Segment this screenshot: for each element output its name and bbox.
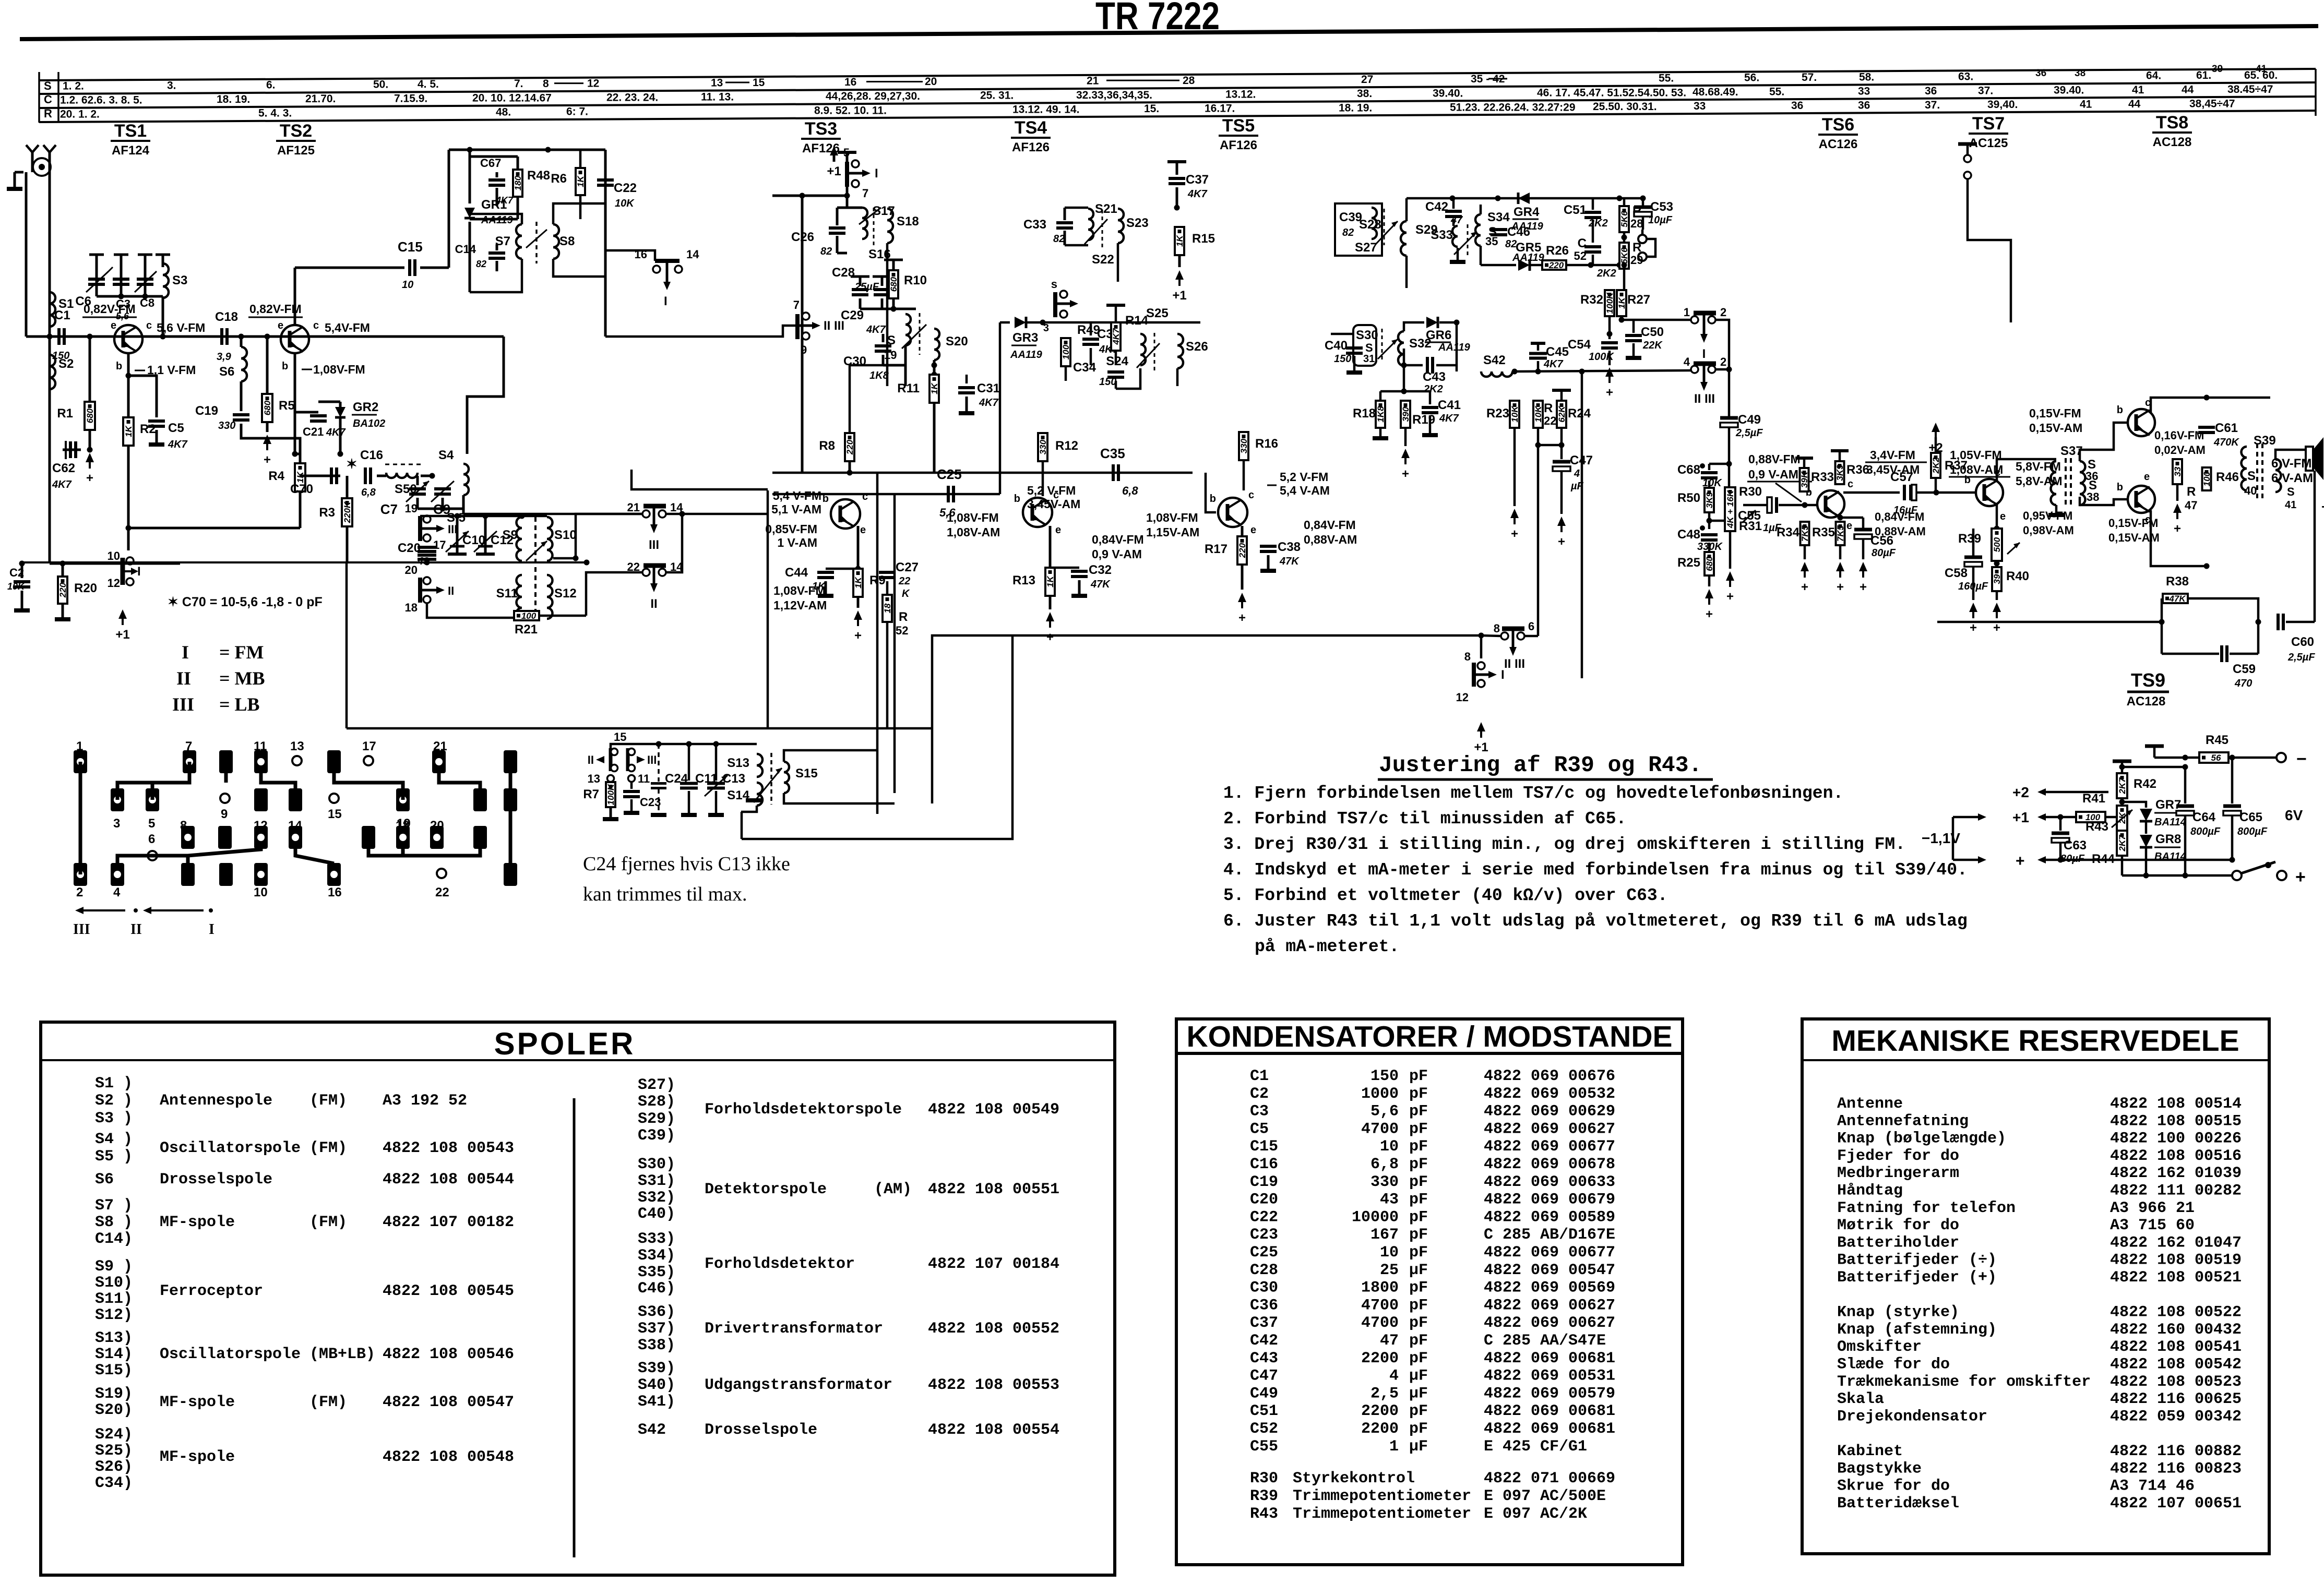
- svg-text:c: c: [1248, 489, 1254, 501]
- svg-text:R1: R1: [57, 406, 73, 421]
- wire switch joins down: [1716, 320, 1729, 416]
- svg-text:S9 ): S9 ): [95, 1258, 133, 1276]
- svg-text:63.: 63.: [1958, 70, 1973, 82]
- pcb pad 19: [396, 788, 410, 811]
- svg-text:C29: C29: [841, 308, 864, 322]
- svg-text:1,08V-AM: 1,08V-AM: [947, 525, 1000, 539]
- coil S42: [1481, 371, 1512, 377]
- svg-text:2: 2: [1720, 355, 1726, 368]
- svg-text:21: 21: [627, 501, 640, 514]
- switch 20 18 II: [418, 578, 422, 603]
- wire jack down: [25, 172, 28, 337]
- wire 8 contact to frame: [1481, 635, 1501, 636]
- svg-text:43: 43: [1380, 1191, 1399, 1209]
- svg-text:20. 10. 12.14.67: 20. 10. 12.14.67: [472, 92, 552, 104]
- pcb hole 9: [220, 794, 230, 803]
- svg-text:470: 470: [2234, 678, 2252, 689]
- svg-text:C41: C41: [1438, 398, 1461, 412]
- capacitor C41 4K7: [1404, 390, 1430, 393]
- svg-text:18: 18: [396, 819, 410, 833]
- svg-text:12: 12: [587, 77, 599, 89]
- svg-text:S33): S33): [638, 1230, 675, 1248]
- svg-text:4K7: 4K7: [979, 397, 999, 409]
- svg-text:TS6: TS6: [1822, 115, 1854, 135]
- svg-text:R30: R30: [1250, 1470, 1278, 1487]
- svg-text:Medbringerarm: Medbringerarm: [1837, 1165, 1959, 1182]
- coil S3: [163, 263, 169, 298]
- svg-text:+: +: [1558, 535, 1565, 549]
- svg-text:2. Forbind TS7/c til minusside: 2. Forbind TS7/c til minussiden af C65.: [1223, 809, 1626, 829]
- svg-text:e: e: [2000, 511, 2006, 522]
- svg-text:47: 47: [1450, 214, 1463, 226]
- svg-text:S39): S39): [638, 1360, 675, 1377]
- svg-text:R20: R20: [74, 581, 97, 595]
- svg-text:S2 ): S2 ): [95, 1092, 133, 1110]
- resistor R11 1K: [932, 372, 937, 378]
- svg-text:10K: 10K: [615, 198, 635, 209]
- pcb trace group top: [117, 762, 189, 800]
- wire R50 node to pot: [1709, 520, 1725, 522]
- svg-text:1 V-AM: 1 V-AM: [777, 536, 817, 549]
- pcb pad right c: [504, 863, 517, 886]
- svg-text:+1: +1: [115, 628, 129, 642]
- svg-text:55.: 55.: [1769, 86, 1784, 98]
- svg-text:0,85V-FM: 0,85V-FM: [765, 522, 817, 536]
- svg-text:390: 390: [1401, 406, 1411, 422]
- diode GR5 AA119: [1518, 259, 1530, 271]
- svg-text:20: 20: [430, 819, 444, 833]
- svg-text:C: C: [1578, 236, 1587, 250]
- svg-text:4822 069 00547: 4822 069 00547: [1484, 1262, 1615, 1279]
- resistor R42 2K7: [2117, 773, 2127, 798]
- coil S7: [516, 224, 522, 259]
- svg-text:4822 108 00547: 4822 108 00547: [383, 1394, 514, 1411]
- svg-text:82: 82: [1342, 227, 1354, 238]
- resistor R3 220K: [346, 476, 349, 498]
- plus +2 feed: [1935, 429, 1937, 438]
- coil S24 S25: [1140, 334, 1146, 365]
- resistor R5 680: [265, 334, 270, 340]
- svg-text:4K7: 4K7: [326, 427, 346, 438]
- svg-text:8: 8: [1494, 622, 1500, 635]
- svg-text:44: 44: [2128, 98, 2141, 110]
- svg-text:C20: C20: [398, 541, 421, 555]
- transistor TS7 body: [1976, 479, 2003, 506]
- svg-text:38: 38: [2075, 68, 2085, 79]
- svg-text:Trimmepotentiometer: Trimmepotentiometer: [1293, 1505, 1471, 1523]
- capacitor C65 800uF: [2231, 758, 2234, 803]
- svg-text:R14: R14: [1125, 314, 1149, 328]
- svg-text:R41: R41: [2082, 791, 2105, 806]
- svg-text:S23: S23: [1126, 216, 1149, 230]
- svg-text:C26: C26: [791, 230, 814, 244]
- AGC rail: [772, 472, 1193, 474]
- svg-text:C36: C36: [1250, 1297, 1278, 1314]
- svg-text:47: 47: [2185, 499, 2197, 512]
- svg-text:4822 108 00545: 4822 108 00545: [383, 1282, 514, 1300]
- S7 S8 frame wires: [470, 214, 522, 224]
- svg-text:Batterifjeder (÷): Batterifjeder (÷): [1837, 1252, 1997, 1269]
- pcb pad 8: [181, 826, 195, 849]
- resistor R17 220: [1241, 526, 1244, 536]
- svg-text:S: S: [44, 79, 52, 92]
- svg-text:C65: C65: [2239, 810, 2262, 824]
- svg-text:C34): C34): [95, 1474, 133, 1492]
- svg-text:4822 069 00532: 4822 069 00532: [1484, 1085, 1615, 1103]
- svg-text:b: b: [823, 493, 829, 505]
- svg-text:AC128: AC128: [2127, 694, 2166, 709]
- svg-text:S1 ): S1 ): [95, 1075, 133, 1093]
- wire top feed: [449, 149, 605, 151]
- pcb pad 20: [430, 826, 444, 849]
- svg-text:13: 13: [588, 772, 600, 785]
- svg-text:GR3: GR3: [1012, 331, 1038, 345]
- svg-text:C19: C19: [195, 404, 218, 418]
- svg-text:AF126: AF126: [1220, 138, 1257, 152]
- pcb pad filled g: [362, 826, 375, 849]
- svg-text:33: 33: [2173, 466, 2183, 476]
- capacitor C67 4K7: [470, 172, 497, 173]
- svg-text:S19): S19): [95, 1385, 133, 1403]
- capacitor C2 10K: [22, 563, 50, 564]
- frame vertical to S15: [931, 728, 934, 803]
- svg-text:5,2 V-FM: 5,2 V-FM: [1280, 470, 1328, 484]
- svg-text:C68: C68: [1677, 463, 1700, 477]
- resistor R20: [62, 563, 64, 577]
- svg-text:7K5: 7K5: [1836, 525, 1845, 542]
- svg-text:6: 7.: 6: 7.: [566, 106, 588, 118]
- svg-text:S28): S28): [638, 1093, 675, 1111]
- capacitor C45 4K7: [1531, 342, 1545, 345]
- coil S8: [553, 224, 559, 259]
- svg-text:4822 069 00629: 4822 069 00629: [1484, 1103, 1615, 1121]
- svg-text:S42: S42: [1483, 353, 1506, 367]
- svg-text:4822 162 01047: 4822 162 01047: [2110, 1234, 2242, 1252]
- coil S34 S35: [1475, 214, 1481, 246]
- svg-text:1000: 1000: [1361, 1085, 1399, 1103]
- svg-text:6: 6: [1528, 620, 1534, 633]
- svg-text:(FM): (FM): [309, 1214, 347, 1231]
- capacitor C70 variable: [300, 475, 340, 477]
- svg-text:3: 3: [113, 817, 120, 831]
- resistor R26 220: [1542, 260, 1566, 270]
- svg-text:A3 966 21: A3 966 21: [2110, 1199, 2195, 1217]
- svg-text:4822 069 00627: 4822 069 00627: [1484, 1297, 1615, 1314]
- svg-text:III: III: [647, 753, 657, 766]
- svg-text:S12: S12: [554, 586, 577, 601]
- svg-text:S: S: [1365, 341, 1373, 354]
- TS6 collector wire: [1843, 491, 1900, 494]
- svg-text:6,8: 6,8: [1370, 1156, 1399, 1173]
- wire pot wiper to C55 to base: [1743, 504, 1767, 507]
- resistor R18 1K8: [1380, 390, 1404, 393]
- svg-text:4822 116 00823: 4822 116 00823: [2110, 1460, 2242, 1478]
- capacitor C63 80uF: [2059, 817, 2062, 831]
- svg-text:BA114: BA114: [2154, 817, 2186, 828]
- svg-text:(FM): (FM): [309, 1092, 347, 1110]
- plus below R5: [266, 422, 269, 432]
- svg-text:S13: S13: [727, 756, 749, 770]
- capacitor C50 22K: [1625, 334, 1642, 337]
- antenna jack: [33, 158, 51, 176]
- T-bar top of R42: [2113, 760, 2131, 763]
- svg-text:b: b: [1014, 493, 1020, 505]
- diode GR1 AA119: [469, 150, 471, 203]
- svg-text:58.: 58.: [1859, 71, 1874, 83]
- tie bar above switch: [846, 152, 849, 162]
- svg-text:C16: C16: [1250, 1156, 1278, 1173]
- svg-text:4822 108 00522: 4822 108 00522: [2110, 1304, 2242, 1322]
- wire TS4 collector up: [1044, 496, 1045, 500]
- svg-text:b: b: [282, 361, 288, 372]
- plus +1 below band switch: [1481, 688, 1482, 720]
- pcb pad 7: [183, 750, 196, 773]
- svg-text:R3: R3: [319, 506, 335, 520]
- svg-text:3.: 3.: [167, 79, 176, 91]
- capacitor C52 2K2: [1584, 245, 1601, 248]
- svg-text:C33: C33: [1023, 218, 1046, 232]
- svg-text:Detektorspole: Detektorspole: [705, 1181, 827, 1198]
- svg-text:S: S: [2247, 469, 2256, 483]
- IF can C33 S21 S22: [1056, 221, 1073, 224]
- svg-text:pF: pF: [1409, 1244, 1428, 1262]
- svg-text:C70: C70: [290, 482, 313, 496]
- svg-text:I: I: [1501, 668, 1505, 682]
- svg-text:4822 108 00553: 4822 108 00553: [928, 1376, 1059, 1394]
- svg-text:C59: C59: [2233, 662, 2256, 676]
- capacitor C11: [688, 744, 690, 781]
- svg-text:4822 069 00681: 4822 069 00681: [1484, 1350, 1615, 1367]
- svg-text:4: 4: [113, 885, 121, 899]
- svg-text:800µF: 800µF: [2190, 826, 2221, 837]
- svg-text:Kabinet: Kabinet: [1837, 1443, 1903, 1460]
- band switch 8 6 II III: [1502, 627, 1524, 631]
- svg-text:II: II: [448, 584, 454, 597]
- switch 5 3 at S24: [1053, 292, 1057, 317]
- svg-text:22: 22: [1544, 414, 1556, 427]
- svg-text:S14): S14): [95, 1346, 133, 1363]
- resistor R6 1K: [576, 168, 585, 195]
- svg-text:2,5µF: 2,5µF: [1735, 427, 1763, 439]
- svg-text:0,16V-FM: 0,16V-FM: [2154, 429, 2204, 442]
- svg-text:C18: C18: [215, 310, 238, 324]
- svg-text:680: 680: [889, 277, 899, 292]
- svg-text:pF: pF: [1409, 1156, 1428, 1173]
- svg-text:4822 107 00182: 4822 107 00182: [383, 1214, 514, 1231]
- svg-text:SPOLER: SPOLER: [494, 1026, 636, 1061]
- svg-text:10: 10: [402, 279, 413, 291]
- svg-text:82: 82: [820, 246, 832, 257]
- svg-text:R39: R39: [1250, 1487, 1278, 1505]
- svg-text:4822 108 00542: 4822 108 00542: [2110, 1356, 2242, 1374]
- svg-text:11: 11: [638, 772, 650, 785]
- capacitor C32 47K: [1050, 567, 1079, 569]
- pcb trace 1-2: [79, 762, 82, 874]
- svg-text:C43: C43: [1250, 1350, 1278, 1367]
- svg-text:c: c: [1848, 478, 1853, 490]
- resistor R32 100K: [1605, 290, 1614, 316]
- pcb pad 21: [432, 750, 446, 773]
- pcb selector arrows: [78, 908, 82, 913]
- svg-text:Drosselspole: Drosselspole: [160, 1171, 272, 1189]
- svg-text:4822 069 00679: 4822 069 00679: [1484, 1191, 1615, 1209]
- svg-text:4822 108 00554: 4822 108 00554: [928, 1421, 1059, 1439]
- svg-text:680: 680: [85, 408, 95, 423]
- svg-text:S33: S33: [1431, 228, 1453, 242]
- svg-text:R: R: [2187, 485, 2196, 499]
- svg-text:4K7: 4K7: [495, 195, 514, 206]
- capacitor C27 22K: [858, 568, 887, 569]
- coil S32: [1398, 331, 1404, 366]
- svg-text:8: 8: [1464, 650, 1471, 663]
- pcb pad filled e: [473, 788, 487, 811]
- svg-text:C40: C40: [1325, 339, 1348, 353]
- capacitor C35 6,8: [1112, 464, 1115, 481]
- svg-text:E 097 AC/2K: E 097 AC/2K: [1484, 1505, 1587, 1523]
- svg-text:1,08V-FM: 1,08V-FM: [1146, 511, 1198, 524]
- svg-text:S34: S34: [1487, 210, 1510, 224]
- svg-text:4822 069 00678: 4822 069 00678: [1484, 1156, 1615, 1173]
- svg-text:II: II: [650, 597, 657, 611]
- svg-text:180: 180: [513, 175, 523, 190]
- pcb trace long bottom: [437, 849, 510, 858]
- capacitor C51 2K2: [1584, 211, 1601, 214]
- svg-text:AF126: AF126: [1012, 140, 1050, 154]
- node rail-left: [47, 334, 53, 340]
- svg-text:K: K: [902, 588, 910, 599]
- svg-text:C49: C49: [1738, 413, 1761, 427]
- telephone jack top right: [1958, 142, 1977, 146]
- svg-text:1800: 1800: [1361, 1279, 1399, 1297]
- svg-text:46. 17. 45.47. 51.52.54.50. 53: 46. 17. 45.47. 51.52.54.50. 53.: [1537, 87, 1686, 99]
- diode GR4 AA119: [1518, 193, 1530, 204]
- resistor R9 1K: [855, 566, 861, 572]
- svg-text:S20: S20: [946, 334, 968, 349]
- svg-text:BA102: BA102: [353, 418, 385, 429]
- trimmer R43 2K: [2117, 806, 2127, 831]
- svg-text:TS7: TS7: [1972, 114, 2005, 134]
- svg-text:pF: pF: [1409, 1350, 1428, 1367]
- svg-text:2200: 2200: [1361, 1350, 1399, 1367]
- svg-text:S13): S13): [95, 1329, 133, 1347]
- svg-text:I: I: [875, 166, 878, 181]
- capacitor C47 4uF: [1553, 460, 1570, 464]
- svg-text:C3: C3: [116, 297, 130, 310]
- svg-text:4700: 4700: [1361, 1120, 1399, 1138]
- svg-text:1K: 1K: [853, 576, 863, 588]
- svg-text:✶: ✶: [346, 456, 357, 472]
- svg-text:4: 4: [1684, 355, 1690, 368]
- svg-text:13: 13: [290, 739, 304, 753]
- svg-text:2,5µF: 2,5µF: [2287, 652, 2315, 663]
- svg-text:(FM): (FM): [309, 1394, 347, 1411]
- svg-text:pF: pF: [1409, 1226, 1428, 1244]
- svg-text:C43: C43: [1423, 370, 1446, 384]
- coil S15: [784, 762, 789, 793]
- coil S5 bottom tie: [462, 495, 465, 514]
- ferro lower wires: [427, 603, 522, 618]
- svg-text:Ferroceptor: Ferroceptor: [160, 1282, 263, 1300]
- svg-text:R26: R26: [1546, 244, 1569, 258]
- svg-text:S7: S7: [495, 234, 510, 248]
- svg-text:S11): S11): [95, 1290, 133, 1308]
- resistor R1 680: [89, 337, 91, 402]
- svg-text:47: 47: [1380, 1332, 1399, 1350]
- svg-text:R33: R33: [1811, 470, 1834, 484]
- capacitor C40 150: [1346, 346, 1363, 350]
- resistor R19 390: [1401, 401, 1410, 428]
- resistor R28 5K6: [1619, 206, 1629, 232]
- TS6 emitter wire: [1841, 517, 1863, 518]
- svg-text:6 V-AM: 6 V-AM: [2271, 471, 2313, 485]
- svg-text:0,95V-FM: 0,95V-FM: [2023, 509, 2072, 522]
- svg-text:b: b: [1964, 474, 1971, 486]
- svg-text:C49: C49: [1250, 1385, 1278, 1402]
- svg-text:S30): S30): [638, 1156, 675, 1173]
- coil S26: [1177, 334, 1183, 368]
- svg-text:3,9: 3,9: [217, 351, 232, 363]
- svg-text:C 285 AB/D167E: C 285 AB/D167E: [1484, 1226, 1615, 1244]
- antenna rod 2: [49, 152, 51, 172]
- svg-text:0,88V-AM: 0,88V-AM: [1304, 533, 1357, 546]
- svg-text:0,84V-FM: 0,84V-FM: [1304, 518, 1356, 532]
- svg-text:2K2: 2K2: [1596, 268, 1616, 279]
- svg-text:S10: S10: [554, 528, 577, 542]
- coil S10: [547, 517, 553, 561]
- wire S5 to band switch rail: [463, 513, 643, 515]
- wire box frame left: [345, 562, 348, 728]
- core dashes S9-S12: [534, 517, 537, 616]
- svg-text:4822 160 00432: 4822 160 00432: [2110, 1321, 2242, 1339]
- svg-text:55.: 55.: [1659, 72, 1674, 84]
- svg-text:12: 12: [254, 819, 268, 833]
- svg-text:II: II: [176, 668, 191, 689]
- svg-text:AC126: AC126: [1819, 137, 1858, 151]
- capacitor C19 330: [240, 381, 243, 411]
- svg-text:1: 1: [76, 739, 83, 753]
- svg-text:0,88V-FM: 0,88V-FM: [1748, 452, 1801, 466]
- svg-text:21: 21: [433, 739, 447, 753]
- svg-text:C7: C7: [380, 501, 398, 517]
- plus +1 above TS3 area: [833, 150, 836, 162]
- svg-text:1. 2.: 1. 2.: [63, 80, 84, 92]
- wire C15 to TS2 collector region: [295, 267, 404, 269]
- svg-text:1.2. 62.6. 3. 8. 5.: 1.2. 62.6. 3. 8. 5.: [60, 94, 142, 106]
- svg-text:20: 20: [925, 76, 937, 88]
- svg-text:S31): S31): [638, 1172, 675, 1190]
- pcb pad 16: [327, 863, 341, 886]
- trimmer C10: [456, 517, 459, 554]
- svg-text:III: III: [649, 538, 659, 552]
- svg-text:220: 220: [1237, 543, 1247, 558]
- svg-text:C40): C40): [638, 1205, 675, 1223]
- resistor R4 1K: [295, 453, 300, 455]
- svg-text:+: +: [2295, 867, 2306, 887]
- svg-text:MEKANISKE RESERVEDELE: MEKANISKE RESERVEDELE: [1831, 1024, 2239, 1058]
- svg-text:4822 108 00515: 4822 108 00515: [2110, 1112, 2242, 1130]
- resistor R50 3K9: [1705, 488, 1714, 512]
- capacitor C21 4K7: [295, 411, 318, 414]
- svg-text:5. Forbind et voltmeter (40 kΩ: 5. Forbind et voltmeter (40 kΩ/v) over C…: [1223, 886, 1668, 905]
- svg-text:18: 18: [883, 603, 892, 613]
- svg-text:C37: C37: [1186, 173, 1209, 187]
- svg-text:51.23. 22.26.24. 32.27:29: 51.23. 22.26.24. 32.27:29: [1450, 101, 1576, 113]
- svg-text:4K7: 4K7: [1439, 413, 1459, 424]
- svg-text:MF-spole: MF-spole: [160, 1394, 235, 1411]
- node C70 junction: [338, 451, 343, 457]
- svg-text:36: 36: [1925, 85, 1937, 97]
- capacitor C15 10: [408, 259, 411, 276]
